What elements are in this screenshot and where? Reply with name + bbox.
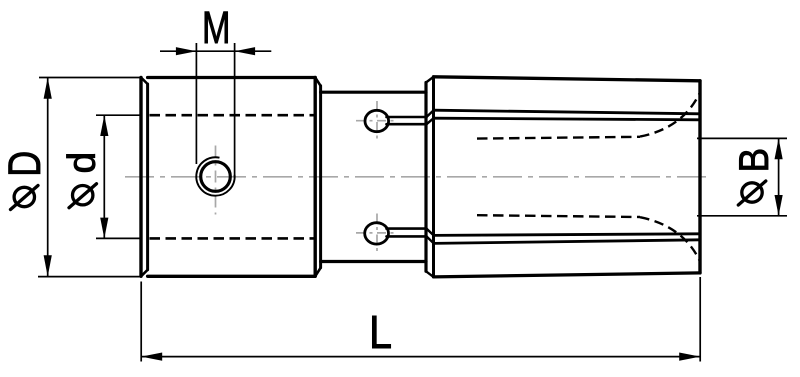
neck outline [321,92,426,261]
hub body outline [141,78,315,277]
dimension B extension lines [697,138,787,215]
centerline bottom keyhole cross [356,214,398,253]
svg-text:d: d [61,152,104,174]
dimension M arrowheads [176,47,197,55]
dimension B line [778,138,780,215]
dimension D extension lines [38,78,141,277]
collet bore hidden line top [477,94,700,139]
dimension B label [731,148,778,205]
dimension L extension lines [141,277,700,362]
thread hole circle [201,162,231,192]
collet top slot lines [434,110,701,120]
hub left face chamfer line [141,78,148,277]
centerline main axis [125,176,711,178]
dimension d line [103,115,105,238]
collet bottom slot lines [434,234,701,244]
hub bore hidden line top [150,114,315,117]
dimension L line [141,356,700,358]
centerline top keyhole cross [356,101,398,140]
dimension L arrowheads [141,353,162,361]
dimension M line [160,50,271,52]
svg-text:M: M [202,4,230,54]
collet body outline [434,77,701,277]
dimension d label [61,152,104,208]
hub bore hidden line bottom [150,237,315,240]
dimension d extension lines [96,115,140,238]
hub right face chamfer line [315,78,320,277]
dimension D line [47,78,49,277]
svg-text:L: L [369,307,392,359]
thread arc [196,157,234,195]
centerline thread hole vertical [215,146,217,215]
svg-text:B: B [731,148,778,173]
bottom keyhole slot [365,223,434,244]
dimension D arrowheads [44,78,52,99]
top keyhole slot [365,110,434,131]
dimension B arrowheads [775,138,783,159]
svg-text:D: D [0,151,50,177]
collet left face line [426,77,434,277]
dimension D label [0,151,50,210]
dimension M extension lines [196,43,234,178]
dimension d arrowheads [100,115,108,136]
collet bore hidden line bottom [477,215,700,260]
